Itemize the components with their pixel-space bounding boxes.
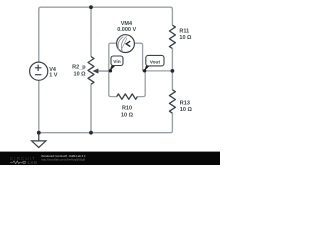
svg-text:R10: R10 — [122, 106, 132, 112]
junction bottom rail / R2_p — [89, 131, 93, 135]
svg-text:10 Ω: 10 Ω — [180, 107, 193, 113]
svg-text:Vout: Vout — [150, 59, 161, 65]
svg-text:R11: R11 — [179, 28, 189, 34]
wire Vout node to right rail junction — [143, 70, 173, 72]
wire between R11 bottom and R13 top — [171, 49, 173, 90]
resistor R11 — [169, 25, 175, 48]
svg-text:Vin: Vin — [113, 59, 120, 65]
voltage source V4 — [30, 62, 48, 80]
node Vout flag — [143, 55, 164, 72]
node Vin flag — [109, 56, 123, 73]
resistor R13 — [169, 90, 175, 113]
junction bottom rail / ground — [37, 131, 41, 135]
footer CircuitLab logo — [10, 156, 38, 165]
svg-text:R13: R13 — [180, 100, 190, 106]
wire Vin node down to R10 left terminal — [109, 71, 117, 97]
svg-text:10 Ω: 10 Ω — [179, 35, 192, 41]
svg-text:10 Ω: 10 Ω — [74, 71, 87, 77]
wire bottom rail from ground junction to R13 bottom — [39, 113, 173, 133]
svg-text:R2_p: R2_p — [72, 65, 86, 71]
svg-text:LAB: LAB — [28, 160, 38, 165]
potentiometer R2_p wiper arrow — [98, 70, 110, 72]
potentiometer R2_p — [88, 57, 94, 85]
wire voltmeter right terminal down to Vout node — [134, 43, 143, 71]
wire R10 right terminal up to Vout node — [137, 71, 145, 97]
svg-text:http://circuitlab.com/c/kerfsv: http://circuitlab.com/c/kerfsvq9j6t5g8 — [42, 158, 86, 162]
wire R2_p top lead from top rail junction — [90, 7, 92, 56]
wire V4 bottom to ground junction — [38, 80, 40, 133]
wire Vin node riser to voltmeter left terminal — [109, 43, 117, 71]
footer bar — [0, 152, 220, 165]
wire top rail from V4 top to R11 top — [39, 7, 173, 62]
junction top rail / R2_p — [89, 5, 93, 9]
voltmeter VM4 — [117, 35, 135, 53]
resistor R10 — [117, 94, 138, 99]
svg-text:10 Ω: 10 Ω — [121, 112, 134, 118]
wire R2_p bottom lead to bottom rail junction — [90, 84, 92, 133]
svg-text:1 V: 1 V — [49, 72, 58, 78]
junction Vout wire / right rail — [171, 69, 175, 73]
svg-text:0.000 V: 0.000 V — [117, 27, 136, 33]
ground — [32, 133, 46, 148]
